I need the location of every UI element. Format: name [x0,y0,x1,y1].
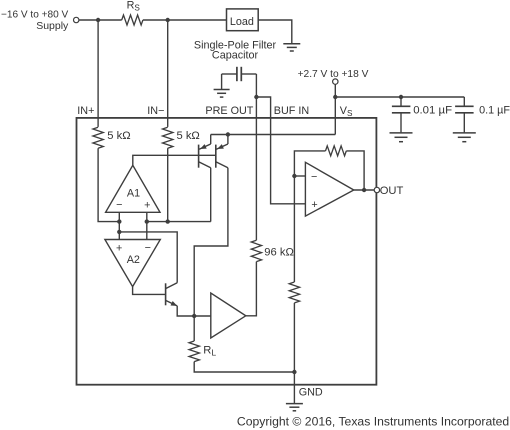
svg-text:Capacitor: Capacitor [212,49,259,61]
load box [227,9,259,31]
wire feedback to output [346,151,364,190]
capacitor filter left wire [222,73,237,75]
ground GND pin [286,403,303,405]
svg-text:RL: RL [203,344,216,357]
supply terminal [74,17,79,22]
wire PRE OUT drop [255,97,257,240]
wire C2 bottom [463,113,465,133]
OUT terminal [374,187,379,192]
node A junction at A1 inverting input [117,219,121,223]
resistor 5k (IN-) [163,127,173,148]
wire IN- drop [167,20,169,127]
svg-text:VS: VS [340,105,353,118]
transistor Q3 emitter arrow [171,301,178,306]
node IN- top junction [166,18,170,22]
node GND junction [292,370,296,374]
IC boundary box [77,118,377,385]
transistor Q3 emitter [166,300,178,306]
svg-text:+: + [116,243,122,255]
svg-text:BUF IN: BUF IN [274,105,309,117]
svg-text:Copyright © 2016, Texas Instru: Copyright © 2016, Texas Instruments Inco… [237,415,509,429]
svg-text:−: − [145,242,151,254]
ground C1 [390,132,413,134]
buffer amplifier [211,293,246,338]
wire load to ground [258,20,292,43]
wire emitter rail to VS [211,134,336,136]
transistor Q3 bar [165,283,167,305]
svg-text:IN+: IN+ [77,105,94,117]
node emitter rail junction [226,132,230,136]
wire Q2 emitter up [227,135,229,145]
wire A1 minus to A2 plus [118,212,120,239]
transistor Q3 collector [166,283,178,289]
transistor Q1 collector [199,162,211,168]
svg-text:0.1 µF: 0.1 µF [479,104,510,116]
wire A3 output [354,189,374,191]
wire preout-bufin link [256,97,270,119]
wire feedback node down [293,176,295,282]
transistor Q2 emitter [216,144,228,149]
transistor Q2 emitter arrow [217,144,224,149]
transistor Q1 emitter [199,144,211,149]
wire bypass rail [335,96,464,98]
svg-text:+2.7 V to +18 V: +2.7 V to +18 V [298,69,369,80]
resistor RL [189,341,199,362]
wire 5k IN- to node B [167,148,169,221]
node A junction at A2 non-inverting input [117,230,121,234]
svg-text:Load: Load [230,16,254,28]
node VS rail junction [333,95,337,99]
wire BUF IN drop [271,117,306,204]
ground filter [214,89,230,91]
wire buffer input to RL [193,316,195,341]
op-amp A2 [105,240,160,287]
capacitor filter right wire [241,73,256,75]
svg-text:A1: A1 [127,188,140,200]
wire buffer input [194,315,211,317]
ground C2 [453,132,476,134]
wire A3 minus input [294,175,305,177]
wire RL to GND node [194,362,294,372]
transistor Q2 collector [216,162,228,168]
wire RS to load [143,19,227,21]
resistor 96k [251,240,261,261]
wire divider to GND pin [293,303,295,403]
svg-text:96 kΩ: 96 kΩ [264,247,294,259]
op-amp A3 output buffer [305,162,353,216]
op-amp A1 [106,165,160,212]
svg-text:PRE OUT: PRE OUT [205,105,253,117]
wire VS terminal down [334,84,336,134]
wire filter to preout [255,74,257,97]
svg-text:−: − [311,171,317,183]
wire C1 bottom [400,113,402,133]
svg-text:RS: RS [127,0,141,12]
resistor RS [122,15,143,25]
svg-text:Supply: Supply [36,20,69,32]
wire C2 top [463,97,465,106]
svg-text:5 kΩ: 5 kΩ [107,130,130,142]
wire A2 output to Q3 base [133,287,166,295]
resistor divider [289,282,299,303]
resistor feedback [326,146,347,156]
svg-text:−: − [116,199,122,211]
svg-text:+: + [311,199,317,211]
svg-text:A2: A2 [127,254,140,266]
wire A1 output to bases [133,155,216,165]
capacitor C2 [455,105,474,107]
node B junction at IN- [166,219,170,223]
node buffer input junction [192,314,196,318]
wire C1 top [400,97,402,106]
wire node B to Q1 collector [210,168,212,222]
ground load [283,43,300,45]
wire A1 plus to A2 minus [146,212,148,239]
wire Q1 emitter up [210,135,212,145]
transistor Q1 bar [198,145,200,168]
svg-text:0.01 µF: 0.01 µF [413,104,452,116]
svg-text:5 kΩ: 5 kΩ [177,130,200,142]
capacitor C1 [392,105,411,107]
wire node B horizontal [147,221,211,223]
wire 5k IN+ to node A [98,148,119,221]
VS supply terminal [333,79,338,84]
svg-text:OUT: OUT [380,185,404,197]
node preout-bufin junction [254,95,258,99]
svg-text:+: + [144,200,150,212]
wire Q3 emitter to buffer input [177,306,194,316]
node output junction [362,188,366,192]
node bypass C1 junction [399,95,403,99]
wire Q2 collector to buffer input [194,168,228,316]
resistor 5k (IN+) [93,127,103,148]
node feedback junction [292,174,296,178]
capacitor filter [236,67,238,81]
svg-text:IN−: IN− [147,105,164,117]
node IN+ top junction [96,18,100,22]
wire buffer output to 96k [246,262,257,316]
wire supply to RS [79,19,122,21]
wire IN+ drop [97,20,99,127]
transistor Q2 bar [215,145,217,168]
wire feedback up [294,151,325,176]
wire node A to Q3 collector [119,232,177,283]
transistor Q1 emitter arrow [200,144,207,149]
node B junction at A1 plus [145,219,149,223]
wire filter to ground [221,74,223,89]
svg-text:GND: GND [299,386,323,398]
svg-text:−16 V to +80 V: −16 V to +80 V [1,9,69,20]
